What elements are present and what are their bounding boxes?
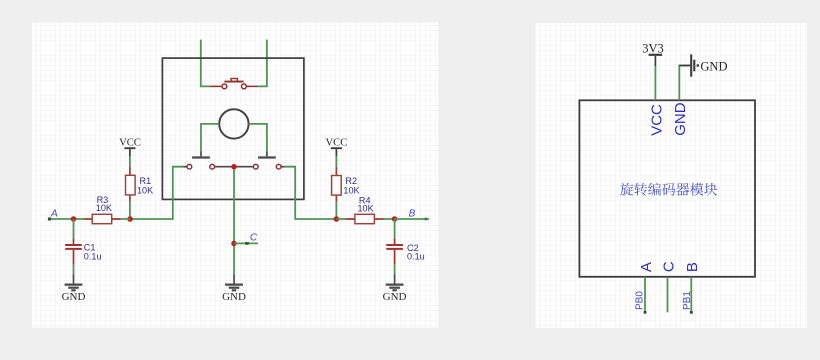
svg-text:GND: GND: [700, 60, 727, 74]
svg-text:B: B: [684, 262, 701, 272]
wiper contact left: [192, 151, 210, 157]
wire top-right of encoder: [258, 40, 267, 87]
svg-text:GND: GND: [672, 102, 689, 136]
module box U2: [579, 100, 755, 276]
svg-text:10K: 10K: [343, 186, 359, 196]
svg-text:GND: GND: [62, 291, 86, 303]
wire 3V3 to VCC pin: [654, 66, 656, 100]
terminal pin 3: [253, 164, 258, 169]
terminal pin 4: [276, 164, 281, 169]
svg-text:B: B: [409, 208, 416, 219]
ground GND3: [383, 275, 407, 303]
junction dot common: [231, 164, 237, 170]
wiper contact right: [258, 151, 276, 157]
wire pin B: [690, 277, 692, 313]
svg-text:A: A: [50, 209, 58, 220]
svg-text:PB1: PB1: [682, 291, 693, 310]
right schematic panel: [536, 23, 808, 328]
svg-text:10K: 10K: [137, 185, 153, 195]
wire pin C: [667, 277, 669, 313]
wire VCC to R1: [129, 156, 131, 167]
wire R4 to node B: [384, 218, 395, 220]
svg-text:10K: 10K: [96, 203, 112, 213]
svg-text:GND: GND: [383, 291, 407, 303]
svg-text:VCC: VCC: [119, 137, 141, 148]
junction R1 node: [127, 216, 133, 222]
wire shaft left: [201, 124, 219, 151]
left schematic panel: [32, 23, 438, 328]
ground GND2: [222, 275, 246, 303]
wire R2 to node: [335, 202, 337, 220]
wire GND pin up: [679, 66, 690, 101]
power flag 3V3: [642, 41, 664, 66]
svg-text:A: A: [638, 262, 655, 272]
svg-text:3V3: 3V3: [642, 41, 664, 55]
svg-text:10K: 10K: [358, 203, 374, 213]
wire encoder C exit: [233, 170, 235, 244]
power flag VCC left: [119, 137, 141, 156]
resistor R2: [332, 167, 360, 202]
wire pin A: [644, 277, 646, 313]
junction node C: [231, 241, 237, 247]
module title text: [620, 183, 717, 196]
wire stub C: [234, 242, 258, 244]
wire shaft right: [249, 124, 267, 151]
encoder box U1: [162, 58, 304, 199]
ground flag sideways: [679, 54, 727, 76]
power flag VCC right: [326, 137, 348, 156]
ground GND1: [62, 275, 86, 303]
svg-text:0.1u: 0.1u: [84, 251, 102, 261]
wire VCC to R2: [335, 156, 337, 167]
terminal pin 2: [210, 164, 215, 169]
wire C2 to GND: [394, 264, 396, 275]
svg-text:0.1u: 0.1u: [407, 252, 425, 262]
svg-text:C: C: [660, 261, 677, 272]
wire node A: [49, 218, 84, 220]
capacitor C1: [65, 239, 101, 265]
wire top-left of encoder: [201, 40, 210, 87]
svg-text:VCC: VCC: [326, 137, 348, 148]
wire encoder A exit: [130, 167, 184, 219]
wire A to C1: [73, 219, 75, 239]
terminal pin 1: [187, 164, 192, 169]
wire node B: [395, 218, 429, 220]
junction node A: [71, 216, 77, 222]
capacitor C2: [386, 239, 424, 265]
wire R1 to node: [129, 201, 131, 219]
junction R2 node: [334, 216, 340, 222]
wire C to GND: [233, 246, 235, 275]
wire B to C2: [394, 219, 396, 239]
encoder shaft circle: [219, 109, 248, 138]
svg-text:GND: GND: [222, 291, 246, 303]
common bar segments: [184, 166, 285, 168]
wire R3 to junction: [121, 218, 131, 220]
svg-text:C: C: [250, 232, 258, 243]
junction node B: [392, 216, 398, 222]
resistor R4: [336, 196, 383, 224]
wire C1 to GND: [73, 264, 75, 275]
push switch SW: [210, 79, 258, 89]
svg-text:PB0: PB0: [635, 291, 646, 310]
svg-text:VCC: VCC: [649, 104, 666, 136]
resistor R1: [126, 167, 154, 201]
wire encoder B exit: [285, 167, 337, 219]
resistor R3: [84, 195, 121, 224]
